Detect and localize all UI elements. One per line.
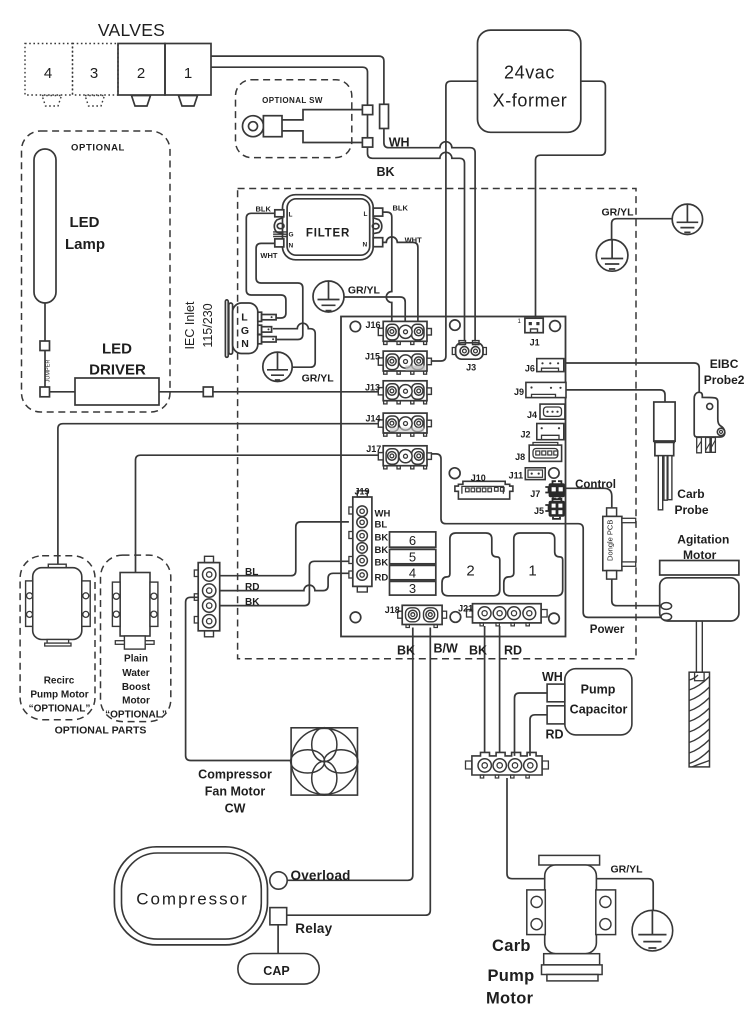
- svg-text:GR/YL: GR/YL: [302, 373, 335, 385]
- wire LED driver to J13: [159, 391, 203, 393]
- svg-text:JUMPER: JUMPER: [46, 360, 52, 383]
- wire valve1 to fuse (top): [211, 56, 384, 104]
- wire square B to BK to J3 left pin: [368, 147, 465, 341]
- svg-text:J1: J1: [530, 338, 540, 348]
- svg-text:OPTIONAL SW: OPTIONAL SW: [262, 96, 323, 105]
- wire boost motor to J17: [136, 455, 379, 572]
- svg-text:Probe2: Probe2: [704, 373, 745, 387]
- wire ground G4 to G3: [612, 219, 673, 240]
- connector J13: [378, 381, 431, 404]
- agitator spiral: [689, 672, 709, 767]
- PCB hole top-right: [550, 321, 561, 332]
- svg-text:24vac: 24vac: [504, 63, 555, 83]
- svg-text:IEC Inlet: IEC Inlet: [183, 301, 197, 349]
- svg-text:Pump: Pump: [488, 967, 535, 985]
- svg-text:J5: J5: [534, 506, 544, 516]
- svg-text:N: N: [289, 243, 294, 250]
- relay 2: [442, 533, 500, 596]
- svg-text:3: 3: [409, 581, 416, 596]
- svg-text:J10: J10: [471, 473, 486, 483]
- IEC L spade: [258, 312, 276, 321]
- svg-text:DRIVER: DRIVER: [89, 362, 146, 379]
- svg-text:2: 2: [137, 65, 145, 82]
- relay box 5: [390, 549, 436, 563]
- valve 1: [165, 44, 211, 107]
- relay square: [270, 908, 287, 925]
- svg-text:Power: Power: [590, 624, 625, 636]
- wire jumper: [44, 351, 46, 388]
- svg-text:1: 1: [184, 65, 192, 82]
- connector J15: [378, 351, 431, 374]
- connector J6: [537, 359, 564, 372]
- svg-text:CAP: CAP: [263, 964, 289, 978]
- wire filter left N (WHT) to IEC N blade: [256, 243, 303, 339]
- svg-text:Overload: Overload: [291, 868, 351, 883]
- svg-text:“OPTIONAL”: “OPTIONAL”: [105, 710, 167, 721]
- wire to J13 left tab: [213, 391, 378, 393]
- svg-text:BL: BL: [245, 567, 258, 578]
- wire between squares: [367, 115, 369, 138]
- filter left ear: [274, 218, 283, 234]
- connector square B: [362, 138, 372, 147]
- IEC N spade: [258, 335, 276, 344]
- svg-text:BLK: BLK: [393, 204, 409, 213]
- carb probe: [654, 402, 675, 510]
- connector J16: [378, 321, 431, 344]
- wire switch to square B: [282, 131, 362, 143]
- capacitor terminal RD: [547, 706, 565, 724]
- svg-text:J14: J14: [366, 413, 381, 423]
- PCB hole bottom-right: [549, 613, 560, 624]
- wire switch to square A: [282, 110, 362, 120]
- relay box 4: [390, 565, 436, 579]
- svg-text:“OPTIONAL”: “OPTIONAL”: [29, 704, 91, 715]
- wire dongle to agitation motor: [612, 579, 662, 606]
- svg-text:EIBC: EIBC: [710, 357, 739, 371]
- 24vac X-former box: [478, 30, 581, 132]
- svg-text:N: N: [241, 338, 249, 350]
- wire fan motor to P1: [186, 597, 292, 760]
- svg-text:BK: BK: [375, 558, 389, 569]
- svg-text:RD: RD: [375, 573, 389, 584]
- svg-text:Fan Motor: Fan Motor: [205, 785, 266, 799]
- svg-text:Capacitor: Capacitor: [570, 703, 628, 717]
- svg-text:WH: WH: [375, 509, 391, 520]
- ground G5: [632, 910, 673, 951]
- svg-text:L: L: [241, 312, 248, 324]
- svg-text:Recirc: Recirc: [44, 676, 75, 687]
- filter right N tab: [373, 238, 383, 247]
- carb pump motor: [527, 855, 616, 981]
- connector J8: [529, 443, 561, 462]
- PCB hole top-mid: [450, 320, 460, 330]
- svg-text:J4: J4: [527, 410, 537, 420]
- wire WH terminal to P2 pin3: [515, 693, 548, 756]
- svg-text:Plain: Plain: [124, 654, 148, 665]
- svg-text:BLK: BLK: [256, 205, 272, 214]
- connector J11: [525, 468, 545, 480]
- PCB hole bottom-mid: [450, 612, 461, 623]
- ground G1 (near filter): [313, 281, 344, 312]
- wire lamp to jumper: [44, 303, 46, 341]
- relay 1: [504, 533, 563, 596]
- filter left N tab: [275, 239, 284, 247]
- svg-text:Carb: Carb: [492, 937, 531, 955]
- svg-text:G: G: [289, 232, 294, 239]
- compressor body: [114, 847, 267, 945]
- connector J19: [349, 491, 372, 592]
- filter left L tab: [275, 210, 284, 217]
- IEC inlet body: [233, 303, 258, 354]
- svg-text:G: G: [241, 325, 249, 337]
- compressor fan motor: [291, 728, 358, 796]
- IEC G spade: [258, 325, 272, 334]
- svg-text:BL: BL: [375, 520, 388, 531]
- svg-text:BK: BK: [397, 644, 415, 658]
- connector J5 (black): [545, 499, 565, 519]
- svg-text:J15: J15: [365, 352, 380, 362]
- connector J17: [378, 446, 431, 469]
- svg-text:J6: J6: [525, 363, 535, 373]
- svg-text:GR/YL: GR/YL: [348, 285, 381, 297]
- svg-text:BK: BK: [245, 597, 260, 608]
- dongle PCB: [603, 508, 636, 579]
- inline connector square: [203, 387, 213, 397]
- wire motor to ground G5: [596, 879, 653, 911]
- LED lamp optional dashed box: [22, 131, 171, 412]
- PCB hole mid-left: [449, 468, 460, 479]
- svg-text:X-former: X-former: [493, 91, 568, 111]
- jumper square top: [40, 341, 50, 351]
- wire fuse to WH to J3 right pin: [384, 129, 475, 342]
- ground G4: [596, 240, 628, 272]
- connector J18: [398, 605, 447, 627]
- wire P1 pin3 BK to J19: [220, 561, 349, 605]
- svg-text:2: 2: [466, 563, 474, 580]
- LED DRIVER box: [75, 378, 159, 405]
- svg-text:VALVES: VALVES: [98, 20, 165, 40]
- svg-text:6: 6: [409, 533, 416, 548]
- svg-text:1: 1: [528, 563, 536, 580]
- connector J2: [537, 424, 564, 440]
- svg-text:BK: BK: [377, 165, 395, 179]
- connector J7 (black): [545, 481, 565, 499]
- svg-text:Pump: Pump: [581, 683, 616, 697]
- svg-text:RD: RD: [245, 582, 259, 593]
- svg-text:J3: J3: [466, 363, 476, 373]
- svg-text:J7: J7: [530, 489, 540, 499]
- overload circle: [270, 872, 287, 889]
- svg-text:OPTIONAL PARTS: OPTIONAL PARTS: [55, 725, 147, 737]
- svg-text:J18: J18: [385, 605, 400, 615]
- svg-text:OPTIONAL: OPTIONAL: [71, 143, 125, 154]
- wire relay to CAP: [277, 925, 279, 954]
- wire x-former left to J15: [431, 81, 477, 361]
- svg-text:GR/YL: GR/YL: [611, 864, 644, 876]
- svg-text:115/230: 115/230: [201, 303, 215, 347]
- valve 3 (optional, dotted): [73, 44, 119, 107]
- svg-text:J11: J11: [509, 470, 524, 480]
- svg-text:LED: LED: [102, 341, 132, 358]
- filter pin letters: [289, 211, 368, 250]
- svg-text:WH: WH: [389, 136, 410, 150]
- svg-text:J2: J2: [521, 429, 531, 439]
- wire J9 to carb probe: [566, 390, 665, 402]
- svg-text:BK: BK: [375, 545, 389, 556]
- wire J21 pin1 down to pump connector: [484, 626, 486, 756]
- wire ground G1 to J16 pin2: [344, 297, 405, 322]
- agitator shaft: [696, 621, 702, 677]
- wire valve1 to connector squares (bottom): [211, 67, 368, 105]
- ground G2 (below IEC): [263, 352, 292, 381]
- wire recirc motor to J14: [58, 424, 378, 565]
- svg-text:4: 4: [409, 566, 416, 581]
- wire RD terminal to P2 pin4: [530, 715, 547, 756]
- svg-text:J17: J17: [366, 444, 381, 454]
- svg-text:LED: LED: [70, 214, 100, 231]
- filter left G hatch tab: [273, 232, 287, 237]
- wire filter left L (BLK) to IEC L blade: [246, 213, 286, 318]
- relay box 6: [390, 532, 436, 547]
- connector square A: [362, 105, 372, 114]
- wire J21 pin2 down to pump connector: [499, 626, 501, 756]
- plain water boost motor: [112, 573, 157, 650]
- svg-text:Probe: Probe: [675, 503, 709, 517]
- FILTER body: [283, 195, 374, 260]
- LED lamp tube: [34, 149, 56, 303]
- valve 4 (optional, dotted): [25, 44, 73, 107]
- ground G3 pair top right: [672, 204, 702, 234]
- svg-text:WH: WH: [542, 670, 563, 684]
- svg-text:J21: J21: [458, 604, 473, 614]
- 4-pin connector P1 (vertical): [194, 556, 219, 637]
- relay box 3: [390, 581, 436, 595]
- svg-text:N: N: [363, 242, 368, 249]
- IEC inlet plate bars: [225, 300, 228, 357]
- svg-text:J8: J8: [515, 452, 525, 462]
- svg-text:Pump Motor: Pump Motor: [30, 690, 88, 701]
- optional switch dashed box: [236, 80, 352, 158]
- wire J18 pin2 down B/W to relay: [287, 628, 430, 916]
- EIBC Probe2 switch: [694, 392, 725, 437]
- svg-text:3: 3: [90, 65, 98, 82]
- svg-text:RD: RD: [504, 644, 522, 658]
- connector J4: [540, 404, 565, 419]
- filter right L tab: [373, 208, 383, 216]
- svg-text:Dongle PCB: Dongle PCB: [605, 520, 614, 561]
- agitation motor top cap: [660, 561, 739, 576]
- svg-text:CW: CW: [225, 802, 246, 816]
- svg-text:Compressor: Compressor: [198, 768, 272, 782]
- recirc pump motor: [26, 564, 91, 646]
- svg-text:Lamp: Lamp: [65, 236, 105, 253]
- svg-text:BK: BK: [469, 644, 487, 658]
- svg-text:FILTER: FILTER: [306, 228, 350, 240]
- main dashed enclosure box: [238, 189, 636, 659]
- optional switch SW1: [243, 116, 283, 137]
- wire P1 pin1 BL to J19: [220, 522, 349, 576]
- agitation motor terminal ovals: [661, 603, 672, 610]
- svg-text:J19: J19: [355, 487, 370, 497]
- agitation motor body: [660, 578, 739, 621]
- wire P1 pin2 RD to J19 (hops BK): [220, 573, 349, 590]
- svg-text:WHT: WHT: [260, 251, 277, 260]
- svg-text:J9: J9: [514, 387, 524, 397]
- svg-text:L: L: [289, 212, 293, 219]
- svg-text:Motor: Motor: [486, 990, 534, 1008]
- connector J3: [452, 341, 486, 360]
- wire IEC G blade to ground, hops WHT: [273, 323, 315, 367]
- svg-text:Compressor: Compressor: [136, 890, 249, 909]
- svg-text:Boost: Boost: [122, 682, 151, 693]
- pump 4-pin connector P2: [466, 752, 549, 778]
- svg-text:Water: Water: [122, 668, 150, 679]
- PCB board outline: [341, 317, 566, 637]
- wire J18 pin1 down BK to overload: [288, 628, 413, 881]
- svg-text:4: 4: [44, 65, 52, 82]
- wire filter right N (WHT) to J16 pin3, hop over BLK: [383, 237, 418, 322]
- svg-text:Agitation: Agitation: [677, 533, 729, 547]
- shading patches: [406, 366, 426, 371]
- svg-text:J16: J16: [366, 320, 381, 330]
- power wire J17 to agitation motor: [431, 454, 661, 618]
- left optional parts dashed box 1: [20, 556, 95, 720]
- connector J14: [378, 413, 431, 436]
- wire P2 to carb pump motor: [507, 778, 545, 879]
- svg-text:5: 5: [409, 550, 416, 565]
- EIBC pins: [697, 438, 716, 453]
- valve 2: [118, 44, 165, 107]
- PCB hole bottom-left: [350, 612, 361, 623]
- wire J6 to EIBC probe: [566, 363, 700, 392]
- connector J9: [526, 382, 566, 397]
- filter right ear: [373, 218, 382, 234]
- connector J1: [525, 318, 543, 333]
- J19 pin labels: [375, 509, 391, 584]
- fuse F1: [380, 104, 389, 128]
- svg-text:GR/YL: GR/YL: [602, 207, 635, 219]
- svg-text:RD: RD: [546, 728, 564, 742]
- connector J10: [455, 481, 513, 499]
- wire J7 to dongle (control): [565, 488, 612, 508]
- wire jumper to LED driver: [50, 391, 76, 393]
- pump capacitor box: [565, 669, 632, 735]
- capacitor terminal WH: [547, 684, 565, 702]
- jumper square bottom: [40, 387, 50, 397]
- svg-text:Motor: Motor: [122, 696, 150, 707]
- connector J21: [467, 604, 548, 626]
- svg-text:B/W: B/W: [434, 642, 459, 656]
- svg-text:L: L: [364, 211, 368, 218]
- svg-text:Relay: Relay: [295, 921, 332, 936]
- left optional parts dashed box 2: [101, 555, 171, 722]
- wire filter right L (BLK) down to J16 pin1, hop over GRYL wire: [383, 212, 392, 322]
- CAP pill: [238, 954, 319, 985]
- wire x-former right to J1: [536, 81, 606, 317]
- svg-text:J13: J13: [365, 383, 380, 393]
- PCB hole mid-right: [549, 468, 559, 478]
- PCB hole top-left: [350, 321, 360, 331]
- svg-text:Carb: Carb: [677, 487, 704, 501]
- svg-text:BK: BK: [375, 533, 389, 544]
